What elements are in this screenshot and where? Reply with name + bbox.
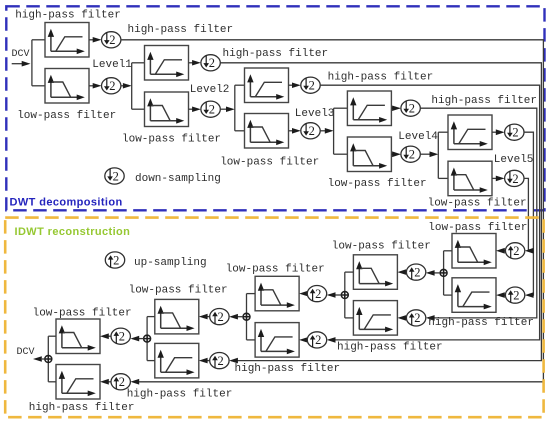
wire level3 to high-pass box: [235, 84, 245, 86]
wire cD2 coefficient route: [220, 63, 541, 364]
svg-text:up-sampling: up-sampling: [134, 257, 207, 269]
IDWT reconstruction dashed border: [5, 218, 543, 418]
svg-text:2: 2: [409, 148, 415, 162]
svg-text:2: 2: [414, 311, 420, 325]
IDWT low-pass filter box level 4: [353, 255, 397, 289]
svg-text:2: 2: [113, 253, 119, 267]
svg-text:low-pass filter: low-pass filter: [332, 241, 431, 253]
svg-text:low-pass filter: low-pass filter: [122, 133, 221, 145]
wire up-sampler to hp1 box: [100, 379, 111, 385]
adder level 3: [243, 313, 250, 320]
svg-text:2: 2: [119, 330, 125, 344]
svg-text:2: 2: [512, 126, 518, 140]
svg-text:2: 2: [218, 354, 224, 368]
wire cA2 to level3: [220, 107, 235, 113]
wire hp3 box to down-sampler: [289, 83, 301, 89]
wire up-sampler to hp3 box: [299, 337, 308, 343]
wire hp4 box to down-sampler: [391, 106, 401, 112]
wire IDWT lp2 box out: [147, 316, 155, 318]
low-pass filter box level 3: [245, 114, 289, 149]
down-sampler circle lp level 3: [301, 123, 320, 139]
wire adder2 to up-sampler level 1: [130, 336, 143, 342]
wire DCV output: [33, 356, 45, 362]
wire cA1 to level2: [121, 83, 132, 89]
wire level5 to low-pass box: [438, 177, 448, 179]
wire up-sampler to lp1 box: [100, 333, 111, 339]
down-sampler circle hp level 1: [102, 32, 121, 48]
wire cD4 coefficient route: [420, 108, 537, 321]
wire hp2 box to down-sampler: [189, 60, 201, 66]
wire level3 junction vertical: [234, 85, 236, 131]
svg-text:2: 2: [513, 288, 519, 302]
down-sampler circle hp level 5: [505, 124, 524, 140]
svg-text:2: 2: [209, 56, 215, 70]
svg-text:2: 2: [309, 79, 315, 93]
wire up-sampler to hp2 box: [199, 358, 210, 364]
wire level1 junction vertical: [31, 40, 33, 86]
up-sampler circle lp level 1: [111, 328, 130, 344]
svg-text:low-pass filter: low-pass filter: [220, 156, 319, 168]
low-pass filter box level 5: [448, 161, 492, 196]
svg-text:high-pass filter: high-pass filter: [223, 48, 329, 60]
wire lp4 box to down-sampler: [391, 151, 401, 157]
svg-text:high-pass filter: high-pass filter: [29, 402, 135, 414]
wire up-sampler to lp3 box: [299, 291, 308, 297]
svg-text:2: 2: [209, 103, 215, 117]
wire level2 to low-pass box: [132, 108, 145, 110]
svg-text:DWT decomposition: DWT decomposition: [10, 197, 123, 209]
low-pass filter box level 4: [347, 137, 391, 172]
svg-text:IDWT reconstruction: IDWT reconstruction: [15, 226, 131, 238]
wire IDWT level4 junction vertical: [344, 272, 346, 318]
wire level4 junction vertical: [333, 108, 335, 154]
wire lp2 box to down-sampler: [189, 107, 201, 113]
high-pass filter box level 5: [448, 115, 492, 150]
wire level2 to high-pass box: [132, 62, 145, 64]
svg-text:high-pass filter: high-pass filter: [328, 72, 434, 84]
DWT decomposition dashed border: [6, 6, 544, 210]
svg-text:low-pass filter: low-pass filter: [328, 178, 427, 190]
svg-text:2: 2: [109, 33, 115, 47]
wire hp1 box to down-sampler: [89, 37, 102, 43]
IDWT high-pass filter box level 2: [155, 343, 199, 378]
wire IDWT level5 junction vertical: [443, 251, 445, 295]
IDWT low-pass filter box level 3: [255, 276, 299, 311]
wire adder3 to up-sampler level 2: [229, 314, 243, 320]
wire level5 junction vertical: [437, 132, 439, 178]
wire DCV input: [12, 61, 31, 67]
wire adder5 to up-sampler level 4: [426, 270, 440, 276]
wire IDWT lp4 box out: [345, 271, 354, 273]
wire level4 to high-pass box: [334, 107, 348, 109]
wire lp1 box to down-sampler: [89, 83, 102, 89]
wire up-sampler to lp2 box: [199, 314, 210, 320]
svg-text:2: 2: [414, 265, 420, 279]
svg-text:high-pass filter: high-pass filter: [428, 317, 534, 329]
wire IDWT hp2 box out: [147, 360, 155, 362]
wire IDWT level1 junction vertical: [47, 336, 49, 382]
adder level 5: [440, 269, 447, 276]
wire level5 to high-pass box: [438, 131, 448, 133]
svg-text:2: 2: [513, 244, 519, 258]
svg-text:high-pass filter: high-pass filter: [15, 10, 121, 22]
IDWT low-pass filter box level 2: [155, 299, 199, 334]
svg-text:Level3: Level3: [295, 108, 335, 120]
down-sampler circle lp level 5: [505, 170, 524, 186]
low-pass filter box level 1: [45, 69, 89, 104]
down-sampler circle hp level 4: [401, 100, 420, 116]
high-pass filter box level 2: [145, 46, 189, 81]
svg-text:high-pass filter: high-pass filter: [127, 389, 233, 401]
legend up-sampler symbol: [105, 252, 124, 268]
IDWT low-pass filter box level 5: [452, 234, 496, 269]
adder level 4: [341, 292, 348, 299]
wire adder4 to up-sampler level 3: [327, 292, 342, 298]
down-sampler circle lp level 2: [201, 101, 220, 117]
up-sampler circle hp level 5: [505, 287, 524, 303]
svg-text:2: 2: [309, 124, 315, 138]
wire up-sampler to lp4 box: [397, 269, 406, 275]
svg-text:low-pass filter: low-pass filter: [428, 222, 527, 234]
svg-text:2: 2: [315, 333, 321, 347]
svg-text:Level5: Level5: [494, 154, 534, 166]
wire lp5 box to down-sampler: [492, 176, 505, 182]
svg-text:2: 2: [315, 287, 321, 301]
svg-text:down-sampling: down-sampling: [135, 173, 221, 185]
up-sampler circle lp level 5: [505, 243, 524, 259]
svg-text:2: 2: [409, 102, 415, 116]
svg-text:Level2: Level2: [190, 84, 230, 96]
IDWT high-pass filter box level 1: [56, 365, 100, 400]
svg-text:2: 2: [512, 172, 518, 186]
svg-text:low-pass filter: low-pass filter: [33, 307, 132, 319]
wire level3 to low-pass box: [235, 130, 245, 132]
high-pass filter box level 1: [45, 23, 89, 58]
wire IDWT level2 junction vertical: [146, 317, 148, 361]
up-sampler circle lp level 2: [210, 309, 229, 325]
wire up-sampler to hp5 box: [496, 292, 505, 298]
svg-text:DCV: DCV: [17, 347, 35, 358]
wire cD1 coefficient route: [121, 40, 544, 385]
wire level1 to low-pass box: [32, 85, 45, 87]
wire up-sampler to hp4 box: [397, 315, 406, 321]
low-pass filter box level 2: [145, 92, 189, 127]
up-sampler circle hp level 2: [210, 353, 229, 369]
wire IDWT level3 junction vertical: [246, 294, 248, 340]
up-sampler circle lp level 3: [307, 286, 326, 302]
svg-text:low-pass filter: low-pass filter: [129, 285, 228, 297]
wire IDWT hp3 box out: [247, 339, 256, 341]
up-sampler circle hp level 1: [111, 374, 130, 390]
up-sampler circle lp level 4: [406, 264, 425, 280]
wire cD3 coefficient route: [320, 85, 539, 343]
wire IDWT lp3 box out: [247, 293, 256, 295]
adder level 2: [144, 335, 151, 342]
adder level 1: [45, 356, 52, 363]
wire IDWT lp1 box out: [48, 335, 56, 337]
wire up-sampler to lp5 box: [496, 248, 505, 254]
down-sampler circle hp level 3: [301, 77, 320, 93]
down-sampler circle lp level 4: [401, 146, 420, 162]
high-pass filter box level 4: [347, 91, 391, 126]
wire IDWT hp1 box out: [48, 381, 56, 383]
legend down-sampler symbol: [105, 168, 124, 184]
down-sampler circle lp level 1: [102, 78, 121, 94]
wire cA3 to level4: [320, 128, 333, 134]
svg-text:high-pass filter: high-pass filter: [235, 363, 341, 375]
svg-text:low-pass filter: low-pass filter: [428, 198, 527, 210]
wire cD5 coefficient route: [524, 132, 534, 298]
wire cA4 to level5: [420, 151, 438, 157]
svg-text:2: 2: [119, 375, 125, 389]
down-sampler circle hp level 2: [201, 55, 220, 71]
svg-text:2: 2: [218, 310, 224, 324]
IDWT high-pass filter box level 3: [255, 323, 299, 358]
svg-text:2: 2: [113, 169, 119, 183]
wire IDWT hp5 box out: [444, 294, 452, 296]
svg-text:Level1: Level1: [92, 59, 132, 71]
wire IDWT lp5 box out: [444, 250, 452, 252]
IDWT low-pass filter box level 1: [56, 319, 100, 354]
IDWT high-pass filter box level 4: [353, 301, 397, 336]
svg-text:DCV: DCV: [12, 49, 30, 60]
wire level1 to high-pass box: [32, 39, 45, 41]
svg-text:low-pass filter: low-pass filter: [17, 110, 116, 122]
wire hp5 box to down-sampler: [492, 129, 505, 135]
up-sampler circle hp level 3: [307, 332, 326, 348]
svg-text:high-pass filter: high-pass filter: [431, 95, 537, 107]
wire lp3 box to down-sampler: [289, 128, 301, 134]
wire IDWT hp4 box out: [345, 317, 354, 319]
wire level2 junction vertical: [131, 63, 133, 109]
IDWT high-pass filter box level 5: [452, 278, 496, 313]
svg-text:high-pass filter: high-pass filter: [128, 24, 234, 36]
svg-text:2: 2: [109, 79, 115, 93]
wire cA5 coefficient route: [524, 178, 534, 253]
svg-text:Level4: Level4: [398, 131, 438, 143]
svg-text:low-pass filter: low-pass filter: [226, 263, 325, 275]
up-sampler circle hp level 4: [406, 310, 425, 326]
svg-text:high-pass filter: high-pass filter: [337, 341, 443, 353]
high-pass filter box level 3: [245, 68, 289, 103]
wire level4 to low-pass box: [334, 153, 348, 155]
